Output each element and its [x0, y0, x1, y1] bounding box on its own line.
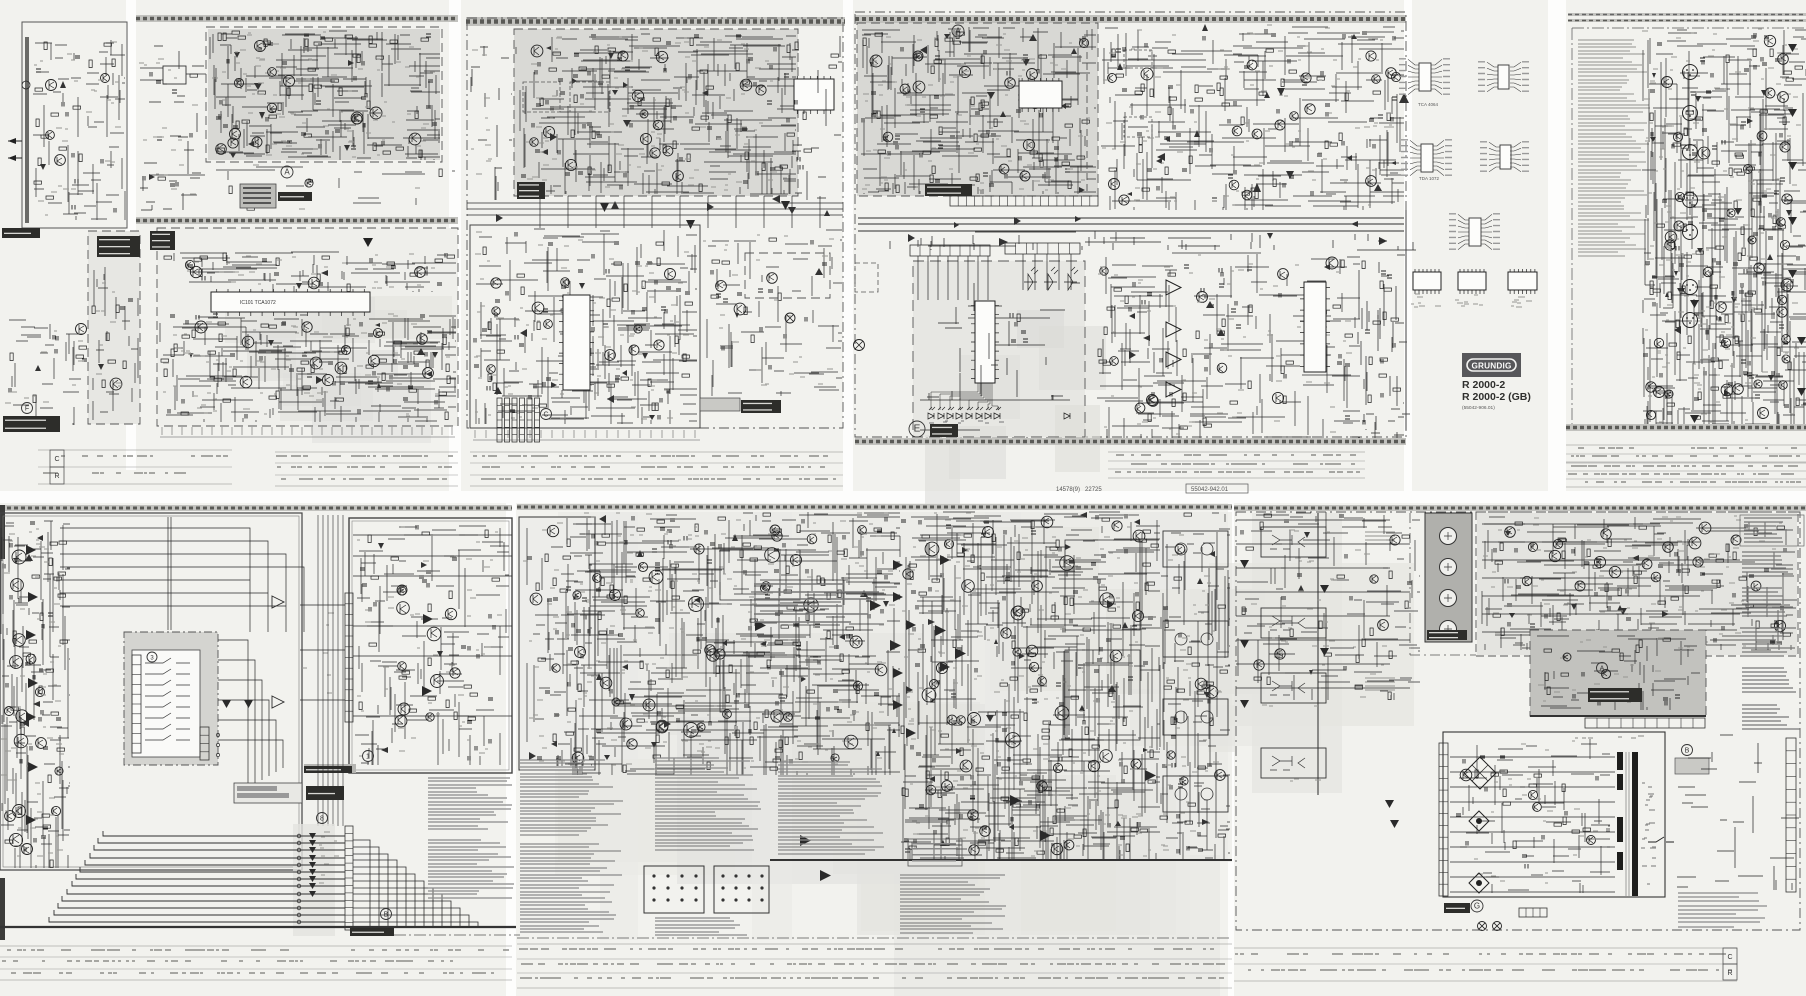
component value labels S3 motor drive circuit [703, 235, 834, 385]
S3 bus lines [467, 203, 843, 215]
transistor cluster S8 corner circuits [530, 525, 560, 672]
S7 preamp transistors [397, 602, 444, 715]
S9 flipflop gray band [1252, 513, 1342, 793]
sheet1 border [22, 22, 127, 228]
svg-text:8: 8 [320, 816, 324, 823]
wire mesh S9 left interconnect [1237, 512, 1420, 700]
transformer box 1 [1124, 50, 1152, 68]
IC3 S06XR [1300, 282, 1330, 372]
S9 right wires [1677, 735, 1799, 890]
circled A sheet2 [281, 166, 293, 178]
resistor/capacitor cluster AM module circuit lower [161, 314, 450, 420]
transistor cluster S9 relay circuit [1505, 522, 1786, 632]
antenna arrows [8, 81, 30, 161]
S4 bus triangles [908, 216, 1387, 246]
S9 relay transistors [1549, 542, 1703, 591]
component value labels S1 aerial input circuit [34, 42, 121, 215]
S7 long feed wires [60, 517, 304, 632]
S3 left margin parts [471, 46, 512, 200]
S9 relay dashed region [1476, 512, 1798, 656]
wire mesh S6 switch matrix circuit [1642, 30, 1806, 425]
svg-text:R 2000-2: R 2000-2 [1462, 379, 1505, 391]
S9 relay region wash [1477, 513, 1797, 655]
wire mesh FM tuner circuit [210, 31, 440, 160]
transistor cluster S6 switch matrix circuit [1646, 35, 1790, 419]
FM tuner module background [208, 29, 440, 160]
S4 left dashed mini-box [855, 263, 878, 292]
S7 module output dots [216, 733, 219, 756]
S4 bottom rail [920, 400, 1070, 430]
transistor cluster decoder circuit [530, 45, 766, 181]
transistor cluster FM tuner circuit [216, 40, 382, 154]
S9 inner gray block [1530, 630, 1706, 716]
diode/arrow cluster S8 corner circuits [529, 741, 557, 760]
S8 corner block [519, 517, 595, 770]
circled B sheet7 [381, 909, 392, 920]
resistor/capacitor cluster S8 right column [1160, 513, 1228, 854]
wire mesh S3 motor drive circuit [707, 230, 842, 396]
S9 power block border [1443, 732, 1665, 897]
component value labels AM module circuit lower [163, 314, 450, 416]
resistor/capacitor cluster decoder circuit [521, 35, 795, 192]
AM filled triangle [363, 238, 373, 247]
S7 NF board tag [350, 928, 394, 936]
S7 left transistors [9, 550, 28, 847]
resistor/capacitor cluster S8 output stage [901, 514, 1159, 854]
IC TDA1072 pinout [1401, 140, 1452, 181]
resistor/capacitor cluster S9 inner block circuit [1544, 638, 1680, 706]
transistor cluster S8 output stage [903, 516, 1145, 855]
diode/arrow cluster S3 IF/decoder lower circuit [494, 283, 655, 420]
transistor T4 [1301, 73, 1311, 83]
S1 module dashed frame [88, 231, 140, 424]
resistor/capacitor cluster S6 switch matrix circuit [1643, 33, 1803, 419]
S4 comb drop wires [918, 254, 1071, 300]
S7 preamp comb [345, 593, 353, 722]
S9 power horizontal wires [1450, 757, 1615, 892]
transistor cluster S4 stereo decoder circuit [1108, 51, 1401, 205]
transistor cluster S9 power circuit [1460, 769, 1595, 844]
svg-text:G: G [1474, 902, 1480, 911]
transistor cluster S7 RF amplifier column [5, 654, 64, 854]
GRUNDIG logo block [1462, 353, 1521, 377]
IC3 TCA420A [794, 76, 834, 114]
S3 right upper parts [792, 36, 842, 200]
diode/arrow cluster S1 module circuit [98, 364, 104, 370]
transistor T303 BF324 [409, 133, 421, 145]
transistor T7 BC550C [1252, 129, 1262, 139]
S4 right edge parts [1362, 255, 1410, 440]
sheet4 top hatch bar [855, 15, 1406, 23]
svg-text:F: F [25, 406, 29, 413]
S9 note column 5 [1742, 705, 1800, 729]
S9 flipflop boxes [1261, 527, 1326, 781]
svg-text:E: E [914, 424, 921, 435]
S9 comb below block [1585, 718, 1705, 728]
S7 bottom table [0, 946, 512, 980]
S7 loom junction dots [297, 834, 301, 924]
S8 big transistors [643, 542, 1114, 762]
svg-text:14578(9) 22725: 14578(9) 22725 [1056, 487, 1102, 493]
wire mesh S8 right column [1160, 513, 1230, 860]
bridge rectifier GL1 [1469, 811, 1489, 831]
component value labels S8 right column [1161, 535, 1222, 850]
DIP package 3 [1508, 269, 1537, 307]
S8 bottom border [517, 860, 1232, 938]
S1 board tag [3, 416, 60, 432]
sheet6 bottom hatch bar [1566, 424, 1806, 431]
S3 motor tag [700, 398, 781, 413]
svg-text:55042-942.01: 55042-942.01 [1191, 487, 1229, 493]
transistor cluster S7 AF preamp circuit [395, 585, 460, 727]
S7 connector comb [345, 826, 353, 930]
wire mesh AM module circuit upper [174, 252, 456, 292]
S9 note column 1 [1742, 552, 1795, 576]
component value labels FM tuner circuit [212, 32, 435, 157]
S6 DIN socket circles [1683, 65, 1698, 328]
decoder board tag [517, 182, 545, 199]
transistor cluster S1 aerial input circuit [46, 74, 110, 166]
S7 AF preamp border [349, 518, 512, 773]
wire mesh decoder circuit [516, 34, 796, 194]
wire mesh S2 mid interconnect [150, 167, 455, 205]
IC S041P pinout [1449, 214, 1500, 250]
transistor cluster S3 IF/decoder lower circuit [487, 269, 676, 374]
circled 3 switch [147, 652, 157, 662]
AM module top tags [150, 231, 175, 250]
S3 connector pin row [473, 430, 700, 440]
wire mesh S4 IF module circuit [861, 27, 1096, 194]
DIN socket 1 [644, 866, 704, 913]
circled 1 sheet7 [363, 751, 374, 762]
transistor cluster S3 motor drive circuit [716, 273, 778, 315]
sheet8 top hatch bar [517, 504, 1232, 510]
HF-Platte label box [240, 184, 312, 208]
S9 netzteil tag [1588, 688, 1642, 702]
S8 service note DE [520, 760, 623, 835]
circled E [909, 421, 925, 437]
circled 8 sheet7 [317, 813, 328, 824]
S3 bus triangles [496, 195, 830, 222]
HF-Platte label box [234, 783, 344, 803]
sheet7 left edge bars [0, 505, 5, 940]
S9 lamp symbols [1478, 922, 1502, 931]
circled G [1471, 900, 1483, 912]
svg-text:(55042-906.01): (55042-906.01) [1462, 405, 1495, 411]
S9 legend box top [1740, 515, 1804, 546]
transistor T6 [1290, 112, 1299, 121]
diode/arrow cluster S4 meter driver circuit [1129, 264, 1330, 359]
S7 loom wires left [49, 831, 345, 922]
S7 input stub wires [300, 605, 345, 700]
S4 decoder board tag [925, 184, 972, 196]
S4 top connector comb B [1005, 243, 1080, 254]
transformer box 2 [1124, 117, 1152, 137]
S6 lower transistors [1654, 335, 1791, 398]
IC101 TCA1072 [211, 289, 370, 316]
diode/arrow cluster S8 tone control stage [596, 515, 896, 760]
S8 mid triangle column [893, 555, 950, 738]
S8 driver block rect 2 [1065, 650, 1140, 740]
resistor/capacitor cluster S7 RF amplifier column [3, 522, 68, 868]
transistor cluster S9 inner block circuit [1563, 653, 1611, 679]
svg-text:B: B [384, 912, 389, 919]
component value labels S1 module circuit [96, 283, 122, 386]
component value labels decoder circuit [526, 37, 787, 190]
diode/arrow cluster S9 left interconnect [1298, 532, 1313, 675]
S8 service note EXTRA [655, 918, 747, 935]
svg-text:IC101 TCA1072: IC101 TCA1072 [240, 300, 276, 306]
svg-text:C: C [1727, 954, 1732, 961]
transistor cluster S4 IF module circuit [870, 38, 1089, 181]
wire mesh S8 corner circuits [527, 524, 592, 766]
circled C sheet3 [541, 409, 552, 420]
S8 service note IT [900, 875, 1006, 933]
S4 LED fan wires [931, 383, 998, 410]
svg-text:R: R [54, 473, 59, 480]
wire mesh S9 power circuit [1459, 739, 1610, 893]
S8 tone block rect 1 [720, 550, 800, 600]
resistor/capacitor cluster S4 meter driver circuit [1098, 260, 1353, 429]
bridge rectifier GL large [1464, 757, 1496, 789]
LED module mottle [925, 310, 1106, 508]
alterations reserved box [908, 839, 962, 866]
S7 preamp long wires [353, 535, 512, 716]
S1 standart/benelux tags [97, 236, 140, 257]
S4 top connector comb A [910, 245, 990, 256]
resistor/capacitor cluster S1 module circuit [92, 299, 133, 388]
wire mesh S7 RF amplifier column [1, 521, 70, 868]
IC1 TCA4064 pinout [1399, 59, 1450, 107]
resistor/capacitor cluster S4 IF module circuit [862, 31, 1090, 193]
S9 relay long wires [1482, 524, 1740, 632]
diode/arrow cluster S9 relay circuit [1505, 531, 1669, 618]
svg-text:1: 1 [366, 754, 370, 761]
S1 tag am-bereich [2, 228, 40, 238]
wire mesh S7 AF preamp circuit [355, 526, 509, 765]
resistor/capacitor cluster S9 relay circuit [1493, 522, 1791, 648]
sheet3 outer dash frame [467, 18, 843, 428]
sheet1 left edge bar [25, 37, 29, 223]
wire mesh S8 tone control stage [566, 512, 900, 775]
sheet4 outer dash frame [855, 12, 1406, 437]
S8 scan shading [555, 527, 1414, 996]
S7 switch module wash [124, 632, 218, 765]
transistor cluster S1 module circuit [110, 378, 122, 390]
S4 resistor ladder [995, 313, 1050, 345]
S9 power connector comb [1439, 743, 1448, 896]
sheet7 top hatch bar [0, 505, 512, 511]
AM module dashed frame [157, 228, 458, 426]
S7 bottom border [0, 927, 520, 935]
S4 LED block inner wires [927, 283, 1080, 400]
S9 cable labels [1641, 783, 1656, 884]
component value labels S2 mid interconnect [164, 165, 420, 209]
resistor/capacitor cluster S9 power circuit [1456, 756, 1598, 869]
IC LM324 pinout [1480, 142, 1529, 172]
S2 bottom table [275, 452, 458, 486]
S8 scan streaks [600, 512, 1190, 940]
svg-text:R 2000-2 (GB): R 2000-2 (GB) [1462, 391, 1531, 403]
S9 right channel note [1365, 678, 1395, 690]
IC201 vertical [559, 295, 594, 390]
S4 bus drops [890, 231, 1416, 250]
S6 transistor column 2 [1778, 54, 1793, 291]
S5 left corner circuit [1358, 210, 1406, 430]
Netz-Baustein text [1575, 736, 1644, 738]
diode/arrow cluster S8 right column [1197, 551, 1215, 825]
S7 switch output comb [200, 727, 209, 760]
wire mesh S1 aerial input circuit [33, 40, 125, 220]
S9 hinweis note [1678, 893, 1767, 927]
component value labels S8 tone control stage [566, 513, 895, 769]
decoder module dashed border [514, 29, 798, 196]
component value labels S7 AF preamp circuit [357, 527, 502, 756]
component value labels S6 switch matrix circuit [1642, 29, 1801, 422]
S7 riser wires [318, 515, 343, 826]
component value labels S9 relay circuit [1483, 516, 1782, 647]
S9 left channel note [1365, 532, 1395, 544]
svg-text:A: A [284, 168, 290, 177]
circled F [22, 403, 33, 414]
S8 legend table [754, 584, 879, 622]
transistor cluster AM module circuit lower [195, 321, 433, 388]
S7 right amps [272, 560, 770, 708]
component value labels S4 meter driver circuit [1098, 255, 1352, 434]
LED row Q1-Q8 [928, 407, 1001, 419]
AM module mottle [225, 296, 452, 443]
S9 note column 3 [1742, 628, 1796, 656]
FM tuner module dashed border [206, 27, 442, 162]
S6 filled triangles [1690, 44, 1806, 423]
S4 IF module background [857, 23, 1098, 196]
S4 internal dashed divider [1086, 30, 1088, 195]
S9 bottom table [1234, 948, 1737, 981]
diode/arrow cluster AM module circuit upper [296, 270, 328, 289]
resistor/capacitor cluster S4 stereo decoder circuit [1109, 29, 1397, 201]
S7 preamp amp triangles [422, 614, 433, 696]
IC1 UAA180 [968, 301, 1002, 383]
S7 block tag [304, 764, 356, 773]
S9 outer dash frame [1236, 512, 1800, 930]
S8 service note FR [778, 762, 884, 854]
resistor/capacitor cluster S2 mid interconnect [229, 169, 442, 210]
component value labels S8 output stage [902, 513, 1152, 856]
resistor/capacitor cluster AM module circuit upper [164, 253, 455, 292]
resistor/capacitor cluster S3 motor drive circuit [711, 238, 827, 370]
component value labels S8 corner circuits [523, 523, 585, 761]
S1 gray module bg [88, 231, 140, 424]
svg-text:A: A [1600, 666, 1605, 673]
S8 bottom table [517, 944, 1232, 988]
component value labels S4 IF module circuit [862, 34, 1090, 190]
resistor/capacitor cluster FM tuner circuit [216, 31, 437, 158]
sheet2 left col parts [139, 46, 204, 210]
S4 gray block bottom connector strip [950, 196, 1098, 206]
diode/arrow cluster S2 mid interconnect [149, 174, 155, 180]
S7 loom labels [319, 832, 339, 883]
svg-text:C: C [543, 412, 548, 419]
resistor/capacitor cluster S9 left interconnect [1241, 514, 1412, 700]
IC101 label [240, 300, 276, 306]
S3 dashed box right [745, 253, 830, 298]
wire mesh S1 AM mod left circuit [9, 320, 83, 425]
resistor/capacitor cluster S7 AF preamp circuit [359, 525, 500, 761]
diode/arrow cluster S4 stereo decoder circuit [1117, 24, 1396, 196]
S6 function text list [1578, 40, 1650, 256]
S7 loom gray band [293, 824, 335, 936]
S8 service note DE2 [520, 844, 622, 932]
S3 bottom table [470, 452, 843, 486]
LED indicator module background [913, 261, 1085, 437]
S1 C/R table [38, 450, 232, 484]
S4 LED labels [929, 421, 1004, 423]
svg-text:TDA 1072: TDA 1072 [1419, 176, 1440, 181]
S9 note column 4 [1742, 668, 1796, 692]
S8 service note EN [655, 758, 761, 850]
DIN socket 2 [714, 866, 769, 913]
S4 top right diodes [1024, 267, 1078, 290]
S4 bottom table [1108, 452, 1365, 478]
S9 inner dashdot corner [1410, 513, 1476, 655]
S3 drop wires [540, 196, 820, 228]
circled B sheet9 [1682, 745, 1693, 756]
decoder F1 dashed box [523, 82, 560, 112]
S7 left triangles [26, 545, 38, 825]
S7 loom wires right [353, 840, 478, 928]
S9 switch symbol [1648, 837, 1674, 842]
aerial transformer CR235 [140, 66, 206, 84]
S6 frame lines [1572, 28, 1806, 424]
S2 connector pin row [160, 427, 455, 437]
decoder module background [514, 29, 798, 196]
sheet2 lower hatch bar [136, 217, 458, 224]
wire mesh S9 relay circuit [1482, 517, 1793, 650]
S6 bottom table A [1566, 445, 1806, 462]
diode/arrow cluster S4 IF module circuit [920, 34, 1085, 193]
svg-text:B: B [1685, 748, 1690, 755]
Anzeige-Platte tag [930, 424, 958, 437]
transistor cluster AM module circuit upper [185, 260, 425, 288]
transistor cluster S8 right column [1167, 544, 1226, 785]
model text R2000-2 [1462, 379, 1531, 411]
lamp symbol [785, 313, 795, 323]
component value labels S3 IF/decoder lower circuit [474, 232, 689, 419]
transistor T301 BF479 [268, 68, 277, 77]
diode/arrow cluster S3 motor drive circuit [735, 268, 823, 318]
sheet9 top hatch bar [1234, 505, 1806, 511]
S8 tone block rect 2 [720, 655, 800, 712]
S8 area wash [558, 512, 1232, 862]
S4 page id text [1056, 484, 1248, 493]
S7 loom triangles [309, 833, 316, 897]
svg-text:TCA 4064: TCA 4064 [1418, 102, 1439, 107]
transistor cluster S2 mid interconnect [305, 179, 313, 187]
AM module wash [157, 228, 458, 426]
S7 mid triangles [222, 700, 253, 708]
S7 switch module dashed border [124, 632, 218, 765]
resistor/capacitor cluster S1 aerial input circuit [34, 42, 116, 213]
transistor T5 BC550C [1247, 60, 1257, 70]
sheet3 top hatch bar [466, 17, 845, 26]
svg-text:C: C [54, 456, 59, 463]
S4 amp triangles [1157, 88, 1409, 192]
S9 left triangles [1240, 560, 1399, 828]
S9 lamp connector [1519, 908, 1547, 917]
S9 meter block [1425, 513, 1472, 642]
S9 left long wires [1236, 520, 1410, 688]
S9 netzplatte tag [1444, 903, 1470, 913]
